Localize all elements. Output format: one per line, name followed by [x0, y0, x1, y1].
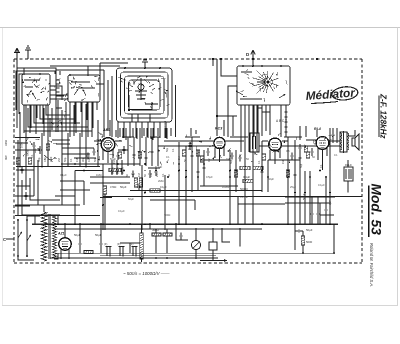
- label 100pF: [20, 142, 24, 148]
- cap C22: [260, 169, 263, 176]
- label column: [116, 160, 120, 175]
- wire: [261, 105, 263, 136]
- block A envelope: [16, 71, 55, 114]
- lead tick: [37, 86, 39, 87]
- wire: [55, 195, 75, 197]
- lead tick: [148, 81, 150, 83]
- resistor network box: [344, 167, 353, 181]
- wire: [248, 105, 250, 133]
- svg-text:50µF: 50µF: [74, 233, 81, 237]
- dropper resistor: [140, 224, 144, 262]
- label: [318, 183, 325, 187]
- wire: [57, 100, 59, 132]
- lead tick: [65, 110, 67, 113]
- wire: [166, 128, 168, 139]
- label Z-F 128kHz: [379, 93, 388, 139]
- svg-text:2M: 2M: [155, 173, 159, 177]
- wire: [252, 59, 254, 66]
- Mediator logo: [305, 85, 358, 103]
- wire: [305, 126, 307, 137]
- svg-text:5000: 5000: [306, 240, 313, 244]
- cap: [38, 146, 41, 154]
- junction dots top border: [212, 58, 318, 60]
- label: [37, 157, 41, 162]
- wire: [65, 102, 67, 131]
- lead tick: [139, 90, 141, 93]
- label: [110, 157, 116, 161]
- svg-text:MW: MW: [4, 155, 8, 160]
- resistor R13: [286, 170, 289, 177]
- wire: [83, 181, 85, 205]
- label 50uF b: [302, 193, 306, 200]
- wire: [50, 94, 68, 96]
- wire: [191, 137, 193, 192]
- cap C23: [293, 172, 296, 179]
- cap: [188, 142, 191, 150]
- label: [178, 157, 181, 160]
- svg-text:(F): (F): [104, 242, 107, 246]
- svg-text:RC3: RC3: [215, 127, 222, 131]
- label BELL: [345, 163, 352, 167]
- decoupling caps: [310, 177, 327, 224]
- lead tick: [144, 102, 147, 104]
- wire: [74, 171, 76, 225]
- junction dots heater: [60, 257, 197, 259]
- wire: [85, 104, 87, 134]
- aerial E terminal: [25, 46, 31, 59]
- svg-text:1M: 1M: [113, 161, 116, 164]
- wire: [203, 150, 205, 186]
- svg-text:0.1: 0.1: [31, 154, 34, 158]
- label F row: [104, 242, 133, 246]
- tube V5 pins: [61, 224, 69, 258]
- svg-text:UKW: UKW: [4, 139, 8, 146]
- wire: [109, 120, 111, 136]
- scan page edge top: [0, 27, 400, 29]
- svg-text:Mod. 53: Mod. 53: [369, 184, 384, 236]
- svg-text:50p: 50p: [63, 157, 67, 162]
- label: [167, 174, 171, 177]
- label Mod 53: [369, 184, 384, 236]
- label: [246, 157, 249, 161]
- arrow line: [200, 250, 227, 262]
- wire: [164, 128, 166, 138]
- wire: [257, 105, 259, 133]
- label: [226, 157, 230, 161]
- wire: [47, 105, 49, 137]
- mid band components: [86, 149, 309, 162]
- wire: [15, 142, 28, 144]
- label: [81, 157, 85, 162]
- label: [118, 209, 125, 213]
- svg-text:470Ω: 470Ω: [110, 185, 116, 189]
- label: [290, 185, 296, 189]
- oscillator routing legs: [118, 114, 166, 138]
- pilot lamp: [191, 229, 200, 258]
- resistor: [200, 156, 203, 162]
- heater pairs: [106, 247, 138, 257]
- wire: [61, 110, 63, 137]
- wire: [156, 229, 167, 254]
- contact column: [57, 80, 60, 96]
- wire: [287, 137, 289, 224]
- lead tick: [74, 77, 75, 79]
- label: [113, 161, 116, 164]
- wire: [347, 160, 349, 167]
- bus wire: [15, 215, 100, 217]
- wire: [261, 141, 263, 192]
- tube V2 pins: [215, 147, 224, 162]
- svg-text:50µF: 50µF: [268, 177, 274, 181]
- label: [166, 155, 170, 159]
- svg-text:0.1µF: 0.1µF: [318, 183, 325, 187]
- wire: [61, 164, 63, 205]
- wire: [103, 70, 105, 96]
- svg-text:1M: 1M: [137, 173, 141, 177]
- coupling caps C10-C13: [128, 137, 158, 166]
- wire: [15, 137, 40, 139]
- junction dots HT: [57, 223, 331, 225]
- wire: [306, 139, 316, 141]
- svg-text:0.25µF: 0.25µF: [240, 195, 249, 199]
- wire: [309, 171, 311, 224]
- caption: [123, 271, 170, 276]
- label RC3: [215, 127, 222, 131]
- svg-text:2M: 2M: [57, 158, 61, 162]
- label: [300, 163, 303, 168]
- wire: [136, 128, 138, 139]
- wire: [157, 128, 159, 136]
- wire: [132, 128, 134, 137]
- svg-text:(F): (F): [130, 242, 133, 246]
- wire: [122, 128, 124, 138]
- label: [43, 158, 47, 162]
- label: [93, 157, 97, 162]
- resistor left: [100, 185, 116, 230]
- svg-text:0.5: 0.5: [286, 149, 290, 153]
- RF input block A: [17, 68, 56, 128]
- wire: [6, 238, 14, 240]
- wire: [50, 86, 62, 100]
- label: [128, 197, 134, 201]
- chassis dashed border bottom: [14, 262, 362, 264]
- wire: [269, 105, 271, 135]
- bus wire: [103, 196, 362, 198]
- component lead texture: [22, 69, 335, 165]
- lead tick: [41, 87, 43, 89]
- svg-text:AB2: AB2: [102, 128, 110, 132]
- label: [161, 173, 165, 177]
- wire: [139, 128, 141, 142]
- wire: [230, 136, 248, 138]
- lead tick: [98, 78, 100, 81]
- label: [268, 177, 274, 181]
- scan page edge right: [397, 28, 399, 307]
- label D: [246, 52, 250, 57]
- bus wire2: [55, 228, 262, 230]
- wire maze D: [228, 86, 286, 224]
- wire: [102, 164, 104, 230]
- wire: [235, 150, 237, 192]
- svg-text:300Ω: 300Ω: [152, 228, 159, 232]
- resistor R22: [152, 233, 161, 236]
- label: [131, 173, 135, 177]
- wire: [56, 76, 62, 108]
- lead tick: [46, 97, 48, 101]
- wire: [238, 203, 285, 205]
- resistor: [182, 150, 185, 156]
- bus wire: [62, 163, 140, 165]
- label column: [111, 160, 115, 175]
- resistor R8: [240, 166, 250, 169]
- tube V3 pins: [262, 141, 288, 164]
- svg-text:ODYN: ODYN: [164, 121, 167, 128]
- RF block B: [68, 66, 120, 128]
- label AZ1: [57, 232, 65, 236]
- svg-text:50µF: 50µF: [306, 228, 313, 232]
- lead tick: [94, 75, 97, 77]
- output transformer T2: [340, 130, 355, 153]
- lead tick: [48, 91, 49, 93]
- label: [230, 159, 233, 164]
- chassis dashed border top: [14, 58, 362, 60]
- svg-text:FELD: FELD: [345, 163, 352, 167]
- wire: [244, 105, 246, 137]
- label: [188, 147, 191, 151]
- wire: [56, 69, 104, 71]
- wire: [38, 160, 44, 205]
- resistor: [46, 144, 49, 150]
- svg-text:0.2: 0.2: [208, 158, 211, 162]
- svg-text:C: C: [3, 237, 6, 242]
- label: [240, 195, 249, 199]
- wire: [304, 171, 306, 224]
- underline Z-F: [378, 96, 380, 138]
- label: [312, 155, 315, 159]
- wire: [59, 71, 61, 75]
- wire: [253, 105, 255, 137]
- bus wire: [75, 170, 103, 172]
- svg-text:300Ω: 300Ω: [164, 213, 170, 217]
- wire: [194, 200, 196, 210]
- wire: [240, 105, 242, 135]
- lead tick: [56, 125, 59, 127]
- choke wire: [80, 224, 101, 253]
- grid feed vertical: [176, 59, 238, 137]
- wire: [73, 105, 75, 136]
- label: [184, 159, 187, 162]
- wire: [164, 175, 166, 230]
- mid row couplings: [62, 141, 340, 154]
- junction dots 3: [57, 163, 335, 254]
- svg-text:AZ1: AZ1: [57, 232, 65, 236]
- cap C20: [196, 169, 199, 176]
- wire: [159, 128, 161, 137]
- IF transformer IFT2: [250, 133, 259, 152]
- label: [125, 174, 129, 177]
- wire: [170, 128, 172, 136]
- B-minus return vertical: [333, 224, 335, 253]
- wire: [60, 189, 90, 191]
- label: [166, 147, 169, 152]
- speaker LS: [352, 134, 359, 150]
- svg-text:50µF: 50µF: [128, 197, 134, 201]
- label: [334, 153, 338, 157]
- label column: [121, 160, 125, 175]
- wire: [265, 105, 267, 131]
- label: [31, 154, 34, 158]
- label 0.1: [243, 175, 250, 179]
- filter cap C30: [74, 233, 82, 251]
- svg-text:0.1µF: 0.1µF: [243, 175, 250, 179]
- wire: [74, 157, 96, 159]
- resistor R23: [163, 233, 172, 236]
- wire: [212, 59, 214, 66]
- lead tick: [29, 76, 31, 79]
- cap C21: [202, 165, 205, 172]
- wire: [35, 105, 37, 134]
- wire: [51, 108, 53, 130]
- wire: [122, 136, 134, 138]
- wires lower mid: [90, 160, 335, 203]
- label: [44, 157, 47, 160]
- wire: [150, 128, 152, 139]
- label C mains: [3, 237, 6, 242]
- svg-text:0.1: 0.1: [320, 164, 323, 168]
- wire: [125, 128, 127, 140]
- wire maze C: [108, 76, 112, 137]
- svg-text:UKW: UKW: [26, 149, 30, 156]
- svg-text:0.5µF: 0.5µF: [206, 175, 213, 179]
- wire: [146, 128, 148, 137]
- wire: [280, 105, 282, 120]
- label AB2: [102, 128, 110, 132]
- wire: [129, 128, 131, 136]
- antenna D: [251, 50, 255, 59]
- bus wire: [130, 190, 262, 192]
- resistor: [304, 146, 307, 152]
- label: [320, 164, 323, 168]
- cap: [298, 144, 301, 152]
- lead tick: [79, 86, 83, 89]
- lead tick: [129, 82, 130, 84]
- label: [63, 157, 67, 162]
- wire: [257, 105, 259, 131]
- cap C16: [137, 184, 140, 191]
- wire: [19, 112, 21, 136]
- label: [149, 173, 153, 177]
- cap: [310, 148, 313, 156]
- svg-text:0.1: 0.1: [69, 158, 73, 162]
- lead tick: [152, 88, 155, 90]
- svg-text:50p: 50p: [37, 157, 41, 162]
- left column wires: [16, 140, 60, 215]
- wire: [221, 59, 237, 76]
- lead tick: [74, 81, 77, 85]
- antenna A: [14, 48, 20, 103]
- wire: [15, 195, 34, 197]
- label: [172, 148, 175, 152]
- resistor R6: [150, 189, 160, 192]
- wire: [100, 62, 128, 64]
- label ABCY: [276, 119, 288, 123]
- lead tick: [150, 91, 152, 94]
- lead tick: [129, 90, 132, 92]
- wire: [185, 136, 200, 138]
- wire: [195, 130, 197, 134]
- wire: [52, 139, 70, 141]
- label: [137, 173, 141, 177]
- tube V2 RC3: [214, 137, 225, 148]
- svg-text:0.1µF: 0.1µF: [160, 185, 167, 189]
- label: [155, 173, 159, 177]
- cap: [24, 192, 27, 200]
- resistor R10: [243, 179, 253, 182]
- lead tick: [60, 121, 62, 124]
- svg-text:0.1: 0.1: [161, 173, 165, 177]
- label: [87, 158, 91, 162]
- label: [164, 213, 170, 217]
- scan page edge bottom: [2, 305, 397, 307]
- wire: [299, 126, 301, 140]
- svg-text:50p: 50p: [166, 147, 169, 152]
- label: [158, 179, 164, 183]
- wire: [119, 128, 121, 137]
- wire: [229, 150, 231, 224]
- wire: [332, 128, 334, 143]
- tube V1 pins: [94, 141, 122, 163]
- wire: [56, 143, 70, 145]
- label: [286, 149, 290, 153]
- label 6uF: [328, 200, 332, 205]
- wire: [320, 214, 334, 216]
- svg-text:0.1µF: 0.1µF: [118, 209, 125, 213]
- resistor: [28, 158, 31, 164]
- svg-text:0.1: 0.1: [258, 160, 261, 164]
- label UHF col: [26, 149, 30, 156]
- lead tick: [63, 115, 66, 117]
- wire: [99, 63, 101, 88]
- label bottom r: [152, 228, 159, 232]
- label: [4, 155, 8, 160]
- scan page edge left: [1, 28, 3, 307]
- heater bus: [55, 252, 334, 254]
- tube V4 pins: [318, 148, 327, 171]
- svg-text:50µF: 50µF: [110, 157, 116, 161]
- svg-text:1M: 1M: [282, 161, 285, 164]
- band switch block D: [236, 65, 290, 105]
- svg-text:0.2: 0.2: [87, 158, 91, 162]
- wire: [237, 197, 239, 224]
- label: [57, 158, 61, 162]
- wire: [299, 150, 301, 224]
- svg-text:0.1: 0.1: [172, 148, 175, 152]
- svg-text:1M: 1M: [75, 158, 79, 162]
- lead tick: [51, 122, 54, 125]
- label: [222, 185, 230, 189]
- filter cap C31: [95, 233, 103, 251]
- tube V4 RL4: [316, 137, 329, 150]
- svg-text:UHF: UHF: [49, 156, 53, 162]
- cap: [206, 148, 209, 156]
- wire: [232, 116, 234, 136]
- wire: [150, 136, 160, 138]
- svg-text:50p: 50p: [230, 159, 233, 164]
- oscillator block C: [117, 60, 173, 128]
- wire: [347, 181, 349, 193]
- svg-text:0.1: 0.1: [334, 153, 338, 157]
- HT bus: [32, 223, 338, 225]
